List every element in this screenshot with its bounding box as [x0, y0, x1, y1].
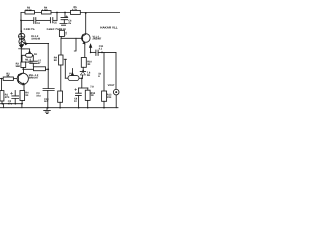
svg-text:47K: 47K [5, 96, 10, 99]
svg-text:2u: 2u [68, 22, 71, 25]
svg-text:4.7K: 4.7K [72, 8, 77, 11]
svg-text:7.8: 7.8 [90, 85, 94, 88]
svg-text:0.1: 0.1 [99, 48, 103, 51]
svg-text:HAKAR VLL: HAKAR VLL [100, 25, 117, 29]
svg-text:10K: 10K [107, 96, 112, 99]
svg-text:2N5087: 2N5087 [93, 38, 102, 41]
svg-text:1N914: 1N914 [25, 61, 33, 64]
svg-text:47u: 47u [8, 103, 13, 106]
svg-text:BRIGHT: BRIGHT [29, 77, 39, 80]
svg-text:SE: SE [87, 74, 91, 77]
svg-text:1K: 1K [91, 94, 94, 97]
svg-text:1K: 1K [25, 94, 28, 97]
svg-text:10u: 10u [36, 95, 41, 98]
svg-text:1N4148: 1N4148 [31, 38, 40, 41]
svg-text:4K: 4K [6, 74, 9, 77]
svg-text:1K: 1K [34, 53, 37, 56]
svg-text:56K: 56K [16, 65, 21, 68]
svg-text:3K: 3K [87, 63, 90, 66]
svg-text:5K: 5K [54, 59, 57, 62]
svg-text:0.33N 7%: 0.33N 7% [24, 28, 36, 31]
svg-text:VOUT: VOUT [108, 84, 115, 87]
svg-text:0.68nF 7%: 0.68nF 7% [47, 28, 60, 31]
svg-text:1.5M: 1.5M [42, 9, 48, 12]
svg-text:10.5K: 10.5K [25, 9, 32, 12]
svg-text:4n7: 4n7 [44, 100, 49, 103]
